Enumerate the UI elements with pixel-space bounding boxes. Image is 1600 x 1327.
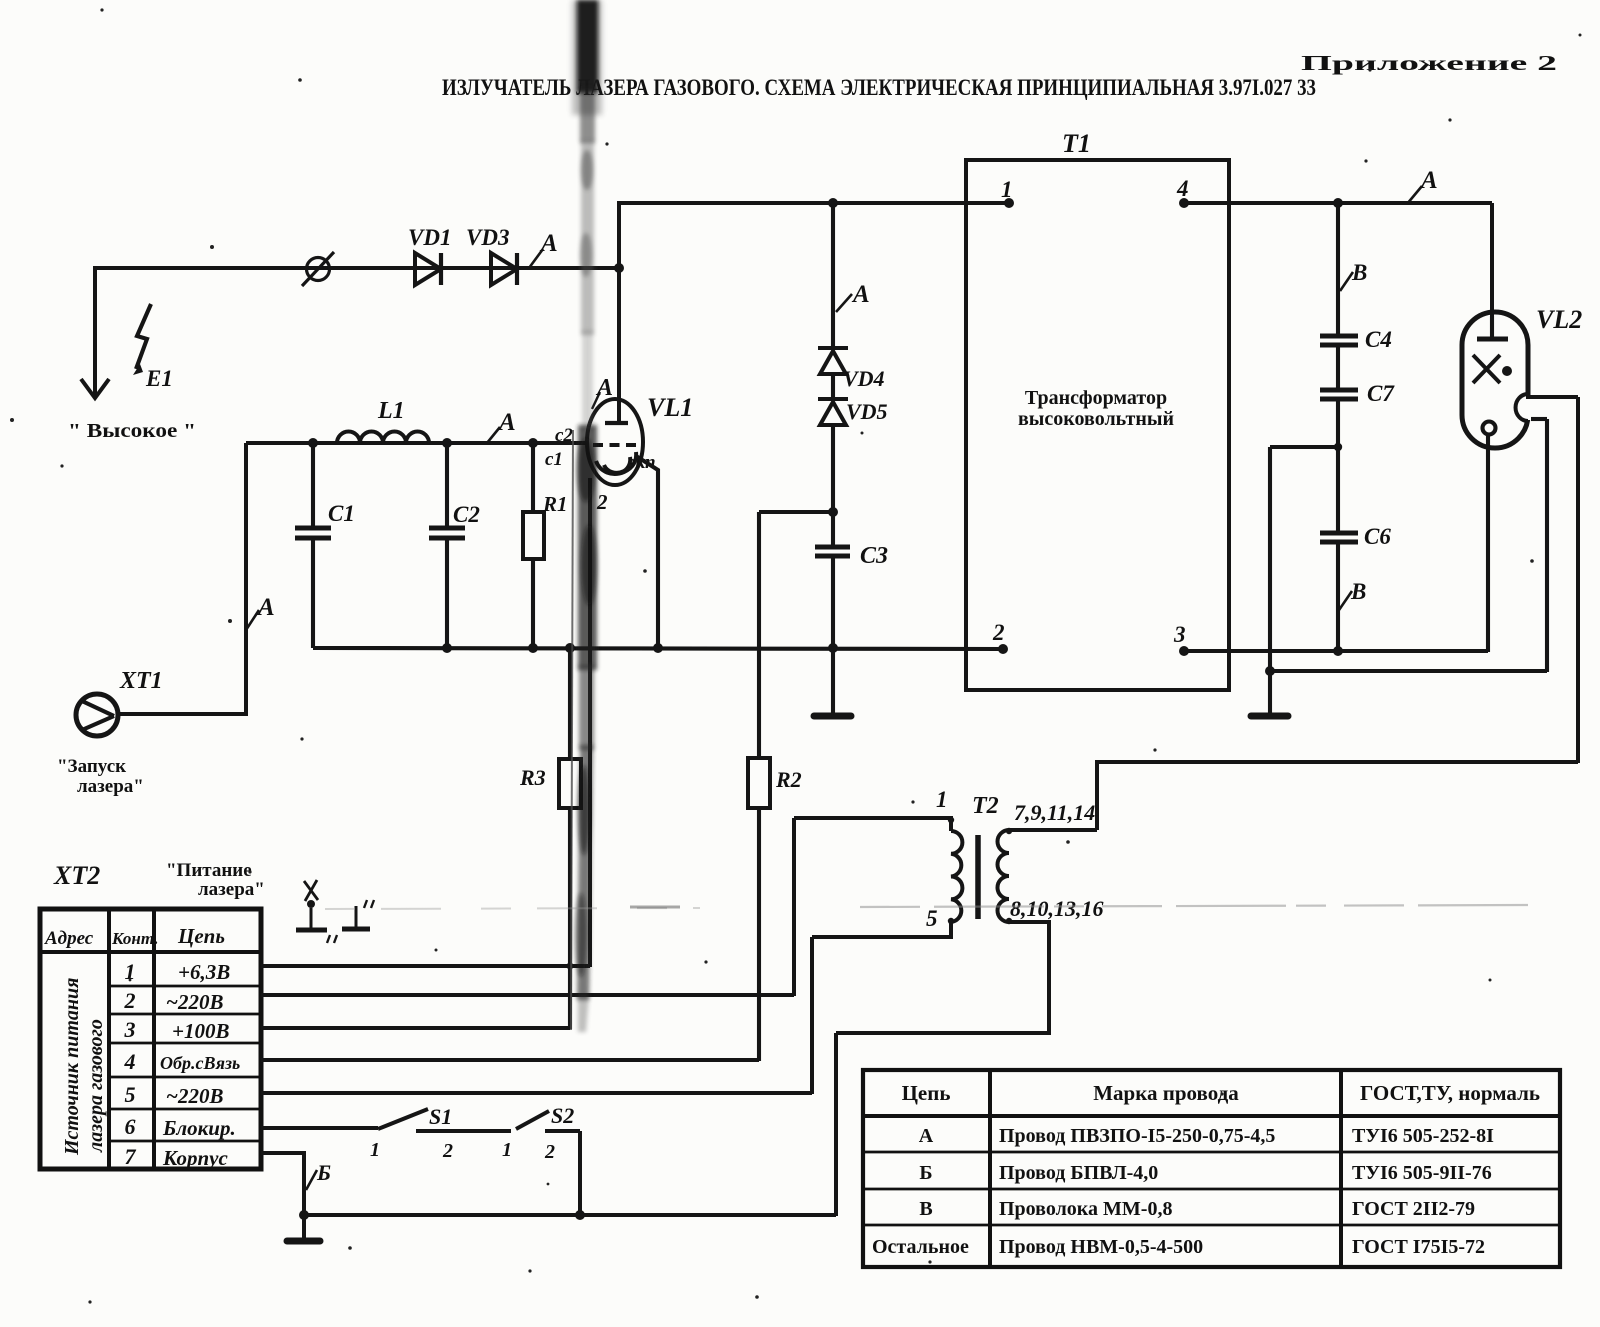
switch S1 <box>378 1109 511 1131</box>
wire side electrode top stub <box>1526 395 1578 399</box>
svg-text:R1: R1 <box>542 492 568 516</box>
phase symbol (circle with slash) on HV lead <box>302 252 334 286</box>
svg-text:Цепь: Цепь <box>902 1081 951 1105</box>
svg-text:Проволока ММ-0,8: Проволока ММ-0,8 <box>999 1198 1172 1220</box>
capacitor C1 <box>295 443 331 648</box>
wire row5 ~220V <box>261 1091 812 1095</box>
svg-text:Б: Б <box>316 1160 331 1185</box>
node junction VL1 cathode lead <box>653 643 663 653</box>
svg-text:ГОСТ 2II2-79: ГОСТ 2II2-79 <box>1352 1198 1475 1220</box>
svg-text:Провод БПВЛ-4,0: Провод БПВЛ-4,0 <box>999 1162 1158 1184</box>
wire row4 feedback <box>261 1058 759 1062</box>
svg-text:А: А <box>595 375 613 401</box>
wire row3 +100V <box>261 1026 570 1030</box>
connector XT1 <box>76 694 118 736</box>
svg-text:+100В: +100В <box>172 1019 229 1043</box>
VL1 grid (dashed) <box>593 443 639 447</box>
pin 2 of T1 <box>992 620 1008 654</box>
svg-text:С4: С4 <box>1365 327 1392 352</box>
wire C7 to C6 with tap node <box>1336 399 1340 532</box>
svg-text:1: 1 <box>502 1139 512 1161</box>
ground under C3 <box>814 648 851 716</box>
wire side electrode outer column down to T2 line <box>1576 397 1580 763</box>
node junction VD4 branch on top bus <box>828 198 838 208</box>
svg-text:2: 2 <box>442 1140 453 1162</box>
svg-text:5: 5 <box>125 1082 136 1107</box>
svg-text:VD1: VD1 <box>408 225 451 250</box>
XT2 contact numbers <box>124 959 137 1169</box>
VL2 getter dot <box>1502 366 1512 376</box>
svg-text:Марка провода: Марка провода <box>1093 1081 1239 1105</box>
svg-text:С1: С1 <box>328 501 355 526</box>
svg-text:А: А <box>497 409 516 436</box>
label A wire mark at VL1 anode <box>592 375 613 409</box>
pin 1 of T1 <box>1001 177 1014 208</box>
node junction C3 column on cathode bus <box>828 643 838 653</box>
label B wire mark upper <box>1340 260 1367 291</box>
shield symbol plain near XT2 <box>342 900 374 929</box>
inductor L1 <box>337 432 429 444</box>
wire side electrode column to screen line <box>1545 419 1549 672</box>
svg-text:Провод ПВЗПО-I5-250-0,75-4,5: Провод ПВЗПО-I5-250-0,75-4,5 <box>999 1125 1275 1147</box>
svg-text:Блокир.: Блокир. <box>162 1116 236 1140</box>
wire row1 +6.3V <box>261 964 590 968</box>
svg-text:2: 2 <box>124 988 136 1013</box>
connector table XT2 frame <box>40 909 261 1169</box>
arrow Высокое output <box>81 379 109 398</box>
svg-text:3: 3 <box>124 1017 136 1042</box>
svg-text:3: 3 <box>1173 622 1186 647</box>
wire VL1 anode column <box>617 202 621 424</box>
node junction R3 column and +6.3V row crossing <box>567 963 574 970</box>
svg-text:ГОСТ I75I5-72: ГОСТ I75I5-72 <box>1352 1236 1485 1258</box>
svg-text:Б: Б <box>919 1162 932 1184</box>
svg-text:VD5: VD5 <box>846 399 888 424</box>
transformer T1 box <box>966 160 1229 690</box>
label Питание лазера <box>166 860 265 900</box>
svg-text:2: 2 <box>544 1141 555 1163</box>
svg-text:Остальное: Остальное <box>872 1236 969 1258</box>
wire T1 pin4 to VL2 anode corner <box>1184 201 1492 205</box>
resistor R1 <box>523 443 544 648</box>
wire top bus to T1 pin 1 <box>617 201 1010 205</box>
svg-text:А: А <box>851 281 870 308</box>
svg-text:" Высокое ": " Высокое " <box>68 420 196 442</box>
wire side electrode bottom stub <box>1531 417 1547 421</box>
chassis bus bottom <box>304 1213 836 1217</box>
wire VL1 heater lead down to +6.3V row <box>588 478 592 967</box>
node junction R1 top <box>528 438 538 448</box>
wire T2 feed line (long horizontal) <box>1097 762 1578 830</box>
svg-text:лазера газового: лазера газового <box>85 1019 107 1153</box>
svg-text:"Запуск: "Запуск <box>57 756 126 777</box>
svg-text:VL1: VL1 <box>647 393 693 422</box>
wire VL1 cathode lead right and down <box>636 456 658 648</box>
svg-text:Т1: Т1 <box>1062 129 1091 158</box>
node junction capacitor chain on pin4 wire <box>1333 198 1343 208</box>
ground chassis <box>287 1215 320 1241</box>
node junction C2 top <box>442 438 452 448</box>
wire T1 pin3 to VL2 cathode column <box>1184 649 1488 653</box>
svg-text:высоковольтный: высоковольтный <box>1018 408 1174 430</box>
svg-text:С3: С3 <box>860 543 888 569</box>
wire S2 drop to chassis bus <box>578 1131 582 1216</box>
label A wire mark on grid bus <box>487 409 516 443</box>
svg-text:S1: S1 <box>429 1104 452 1129</box>
wire XT1 lead <box>119 443 246 714</box>
svg-text:С7: С7 <box>1367 381 1395 406</box>
svg-text:Конт.: Конт. <box>111 929 159 948</box>
wire T2 return to chassis bus riser <box>834 1033 838 1216</box>
svg-text:Т2: Т2 <box>972 793 999 819</box>
wire left branch vertical <box>1268 447 1272 672</box>
svg-text:лазера": лазера" <box>77 776 144 797</box>
svg-text:"Питание: "Питание <box>166 860 252 881</box>
svg-text:~220В: ~220В <box>166 1084 223 1108</box>
pin 4 of T1 <box>1176 176 1189 208</box>
VL2 cathode circle <box>1483 422 1496 435</box>
svg-text:VD4: VD4 <box>843 366 885 391</box>
ground under screen branch <box>1251 671 1288 716</box>
spark gap E1 lightning symbol <box>133 304 151 375</box>
svg-text:ХТ1: ХТ1 <box>119 668 163 694</box>
capacitor C4 <box>1320 336 1358 345</box>
wire E1 vertical drop <box>93 266 97 396</box>
svg-text:2: 2 <box>596 490 608 514</box>
transformer T2 core <box>975 835 981 919</box>
scan scratch line <box>325 908 700 909</box>
capacitor C2 <box>429 443 465 648</box>
svg-text:с2: с2 <box>555 425 573 446</box>
wire table frame: bottom right <box>863 1070 1560 1267</box>
diode VD3 <box>491 253 517 285</box>
label Трансформатор высоковольтный <box>1018 387 1174 430</box>
svg-text:Корпус: Корпус <box>162 1146 228 1170</box>
svg-text:Обр.сВязь: Обр.сВязь <box>160 1053 240 1073</box>
node dots T2 winding ends <box>948 817 1012 924</box>
svg-text:~220В: ~220В <box>166 990 223 1014</box>
svg-text:Источник питания: Источник питания <box>61 978 83 1156</box>
label A wire mark on VD4 branch <box>836 281 870 312</box>
svg-text:А: А <box>919 1125 934 1147</box>
svg-text:Приложение 2: Приложение 2 <box>1301 51 1557 75</box>
svg-text:Цепь: Цепь <box>177 924 225 948</box>
wire row6 interlock to S1 <box>261 1126 378 1130</box>
switch S2 <box>516 1111 580 1131</box>
wire row2 to T2 pin1 riser <box>792 818 796 996</box>
svg-text:С2: С2 <box>453 502 480 527</box>
svg-text:1: 1 <box>1001 177 1013 202</box>
capacitor C7 <box>1320 390 1358 399</box>
capacitor C6 <box>1320 533 1358 542</box>
label Запуск лазера <box>57 756 144 797</box>
VL2 anode electrode <box>1477 316 1508 339</box>
svg-text:7,9,11,14: 7,9,11,14 <box>1014 800 1095 825</box>
wire row7 corpus drop <box>261 1153 304 1215</box>
svg-text:Провод НВМ-0,5-4-500: Провод НВМ-0,5-4-500 <box>999 1236 1203 1258</box>
node junction corpus on chassis bus <box>299 1210 309 1220</box>
XT2 circuit names <box>160 960 240 1170</box>
node junction screen branch bottom <box>1265 666 1275 676</box>
label A wire mark right top <box>1407 167 1438 204</box>
wire screen node to side electrode column <box>1270 669 1547 673</box>
svg-text:4: 4 <box>124 1049 136 1074</box>
node junction S2 on chassis bus <box>575 1210 585 1220</box>
svg-text:5: 5 <box>926 906 938 931</box>
label B wire mark lower <box>1339 579 1366 610</box>
wire node to R2 top corner <box>759 510 833 514</box>
label A wire mark near VD3 <box>529 230 558 268</box>
node junction C3/R2 feed <box>828 507 838 517</box>
node junction tap to screen branch <box>1334 443 1342 451</box>
node junction at VL1 anode column and HV lead <box>614 263 624 273</box>
wire row5 to T2 pin5 riser <box>810 937 814 1094</box>
svg-text:Трансформатор: Трансформатор <box>1025 387 1167 409</box>
svg-text:зкп: зкп <box>627 452 656 473</box>
shield symbol with X near XT2 <box>296 880 337 943</box>
svg-text:Адрес: Адрес <box>44 928 94 949</box>
svg-text:E1: E1 <box>145 366 173 391</box>
transformer T2 primary winding (7,9,11,14) <box>836 830 1097 1033</box>
svg-text:7: 7 <box>125 1144 137 1169</box>
pin 3 of T1 <box>1173 622 1189 656</box>
cathode bus (y648) <box>313 648 1003 649</box>
svg-text:+6,3В: +6,3В <box>178 960 230 984</box>
svg-text:4: 4 <box>1176 176 1189 201</box>
svg-text:С6: С6 <box>1364 524 1391 549</box>
resistor R2 <box>748 512 770 1061</box>
svg-text:1: 1 <box>936 787 948 812</box>
wire C6 down to pin3 line <box>1336 542 1340 651</box>
svg-text:VD3: VD3 <box>466 225 509 250</box>
svg-text:с1: с1 <box>545 449 563 470</box>
capacitor C3 <box>815 512 850 650</box>
VL2 side electrode notch <box>1516 394 1533 421</box>
wire tap to left branch <box>1270 445 1338 449</box>
tube VL1 envelope <box>587 399 643 485</box>
svg-text:В: В <box>1350 579 1366 604</box>
node junction C6 column on pin3 wire <box>1333 646 1343 656</box>
label A wire mark on XT1 riser <box>246 594 275 630</box>
svg-text:R3: R3 <box>519 765 546 790</box>
svg-text:ТУI6 505-9II-76: ТУI6 505-9II-76 <box>1352 1162 1492 1184</box>
svg-text:S2: S2 <box>551 1103 574 1128</box>
wire table texts <box>872 1081 1540 1258</box>
diode VD4 <box>818 348 848 374</box>
transformer T2 secondary winding (1-5) <box>794 818 962 937</box>
svg-text:В: В <box>1351 260 1367 285</box>
VL1 anode electrode <box>605 421 628 425</box>
wire row2 ~220V <box>261 993 794 997</box>
svg-text:L1: L1 <box>377 398 405 424</box>
scan fold smudge artifact <box>571 0 602 1032</box>
title text <box>442 51 1557 101</box>
node junction C2 bottom <box>442 643 452 653</box>
node junction R1 bottom <box>528 643 538 653</box>
wire grid bus (y443) <box>246 441 588 445</box>
wire VD4 branch vertical <box>831 203 835 348</box>
tube VL2 envelope <box>1462 312 1528 448</box>
wire VD5 cathode to node <box>831 425 835 514</box>
svg-text:1: 1 <box>370 1139 380 1161</box>
resistor R3 <box>559 648 581 1029</box>
wire capacitor chain upper <box>1336 203 1340 335</box>
wire VL2 anode drop <box>1490 203 1494 318</box>
label Б wire mark <box>306 1160 331 1190</box>
svg-text:6: 6 <box>125 1114 136 1139</box>
diode VD5 <box>818 374 848 425</box>
XT2 header labels <box>44 924 225 949</box>
svg-text:А: А <box>256 594 275 621</box>
svg-text:2: 2 <box>992 620 1005 645</box>
svg-text:8,10,13,16: 8,10,13,16 <box>1010 896 1104 921</box>
VL1 cathode heater arcs <box>596 452 636 474</box>
svg-text:R2: R2 <box>775 767 802 792</box>
svg-text:VL2: VL2 <box>1536 305 1582 334</box>
svg-text:В: В <box>919 1198 932 1220</box>
svg-text:А: А <box>1419 167 1438 194</box>
wire between C4 and C7 <box>1336 345 1340 389</box>
svg-text:А: А <box>539 230 558 257</box>
svg-text:ХТ2: ХТ2 <box>53 861 100 890</box>
svg-text:лазера": лазера" <box>198 879 265 900</box>
VL2 gas-filled X mark <box>1473 355 1500 383</box>
wire E1 high-voltage lead (top left horizontal) <box>95 266 619 270</box>
svg-text:ГОСТ,ТУ, нормаль: ГОСТ,ТУ, нормаль <box>1360 1081 1540 1105</box>
node junction R3 top <box>565 643 575 653</box>
diode VD1 <box>415 253 441 285</box>
svg-text:ТУI6 505-252-8I: ТУI6 505-252-8I <box>1352 1125 1494 1147</box>
XT2 address rotated label <box>61 978 107 1156</box>
wire VL2 cathode down <box>1486 434 1490 652</box>
node junction C1 top <box>308 438 318 448</box>
